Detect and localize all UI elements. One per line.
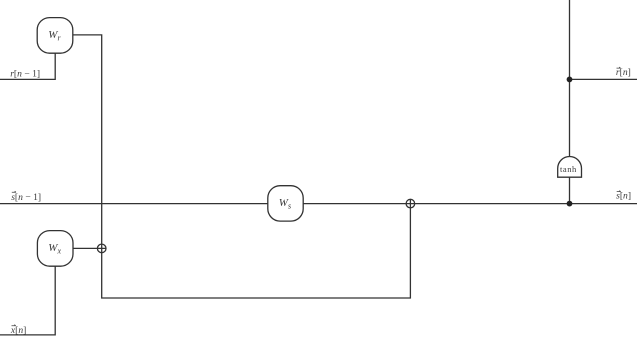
wire vertical through tanh [569, 0, 571, 156]
op block W_r [37, 18, 73, 54]
svg-text:x[n]: x[n] [10, 325, 26, 336]
wire r[n] output [570, 78, 638, 80]
svg-text:r[n − 1]: r[n − 1] [10, 68, 40, 79]
wire x[n] input to W_x [0, 266, 55, 335]
op block W_x [37, 231, 73, 267]
svg-text:tanh: tanh [560, 164, 577, 174]
wire s[n-1] input to W_s [0, 203, 268, 205]
tanh gate [558, 157, 582, 178]
junction dot s[n] [567, 201, 573, 207]
wire W_s output to adder2 [303, 203, 406, 205]
wire tanh bottom to junction [569, 177, 571, 203]
svg-text:s[n]: s[n] [616, 191, 631, 202]
adder node 2 [406, 199, 415, 208]
label x[n] [10, 325, 26, 337]
wire r[n-1] input to W_r [0, 53, 55, 79]
op block W_s [268, 186, 303, 221]
junction dot r[n] [567, 77, 573, 83]
svg-text:s[n − 1]: s[n − 1] [11, 192, 41, 203]
wire W_r output right then down to plus node [73, 35, 102, 244]
wire adder2 output to s[n] [415, 203, 637, 205]
label s[n-1] [11, 191, 41, 203]
label s[n] [616, 191, 631, 202]
label r[n] [616, 67, 631, 78]
wire adder1 down, right, up to adder2 [102, 208, 411, 298]
adder node 1 [97, 244, 106, 253]
svg-text:r[n]: r[n] [616, 67, 631, 78]
wire W_x output to plus node [73, 247, 97, 249]
